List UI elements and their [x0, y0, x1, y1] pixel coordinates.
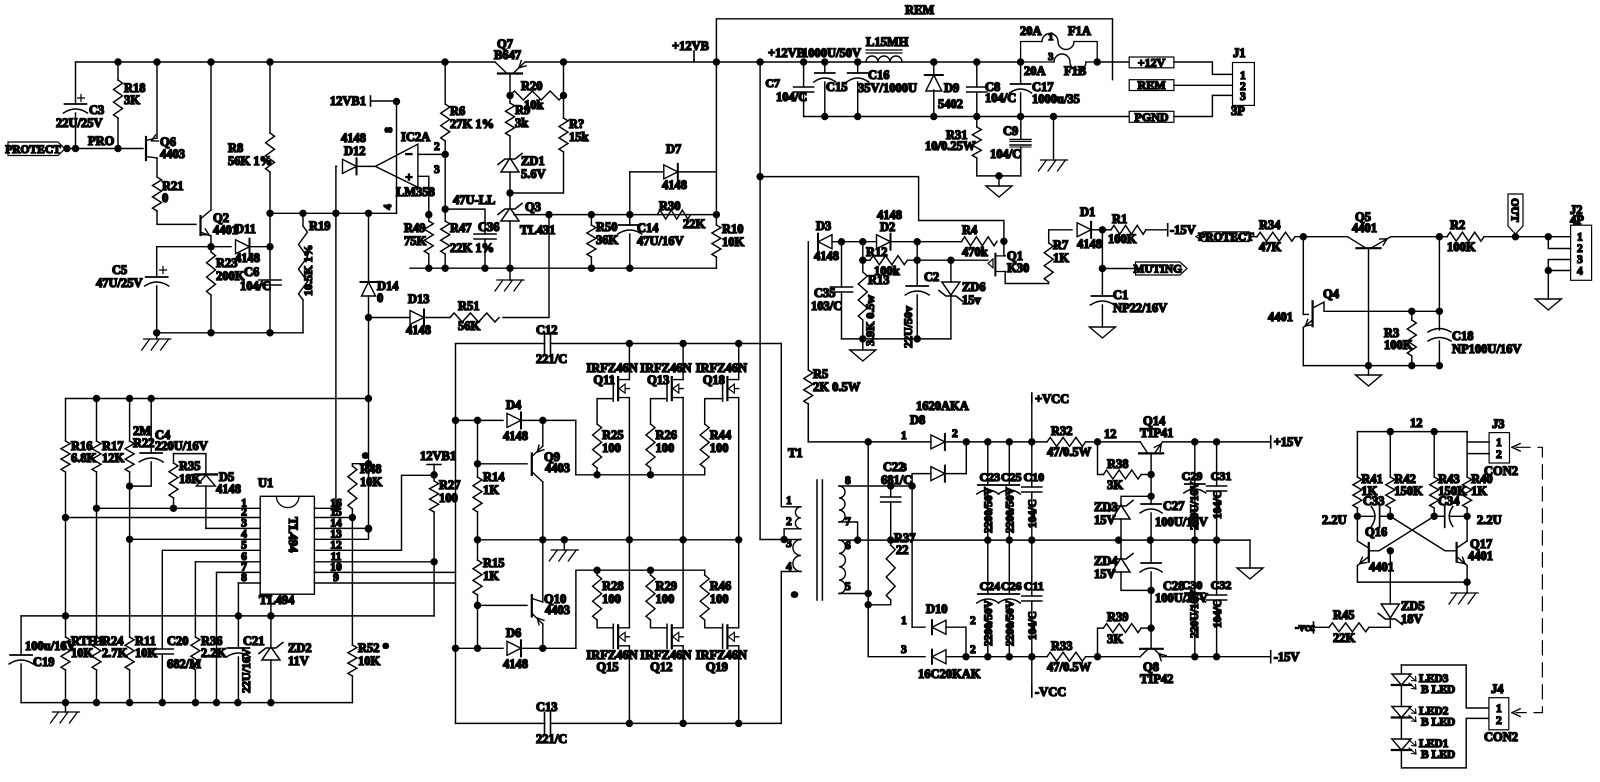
- svg-text:6: 6: [845, 540, 851, 552]
- wire out gnd stem: [1368, 366, 1370, 375]
- wire 12VB1b stem: [433, 465, 435, 475]
- transistor Q4 (4401): [1311, 301, 1313, 326]
- wire C23 bottom: [987, 494, 989, 540]
- wire D4 row: [456, 419, 504, 421]
- transistor Q9 (4403): [531, 454, 533, 475]
- wire C11 top: [1031, 540, 1033, 596]
- tick 12VB1: [370, 96, 372, 106]
- wire R28 top: [596, 570, 598, 575]
- wire C36 branch: [445, 209, 485, 234]
- wire R48 bottom: [351, 509, 353, 518]
- svg-text:104/C: 104/C: [1212, 599, 1224, 628]
- junction: [267, 244, 273, 250]
- junction: [1006, 439, 1012, 445]
- wire pin8 row: [238, 582, 260, 584]
- wire Q18 drain: [738, 344, 740, 380]
- wire D6 row: [456, 647, 504, 649]
- wire C34 left: [1434, 515, 1445, 517]
- diode D9: [926, 75, 942, 91]
- svg-text:C29: C29: [1182, 469, 1203, 483]
- svg-text:D1: D1: [1080, 205, 1095, 219]
- junction: [1094, 59, 1100, 65]
- capacitor C15: [815, 72, 835, 74]
- svg-text:C3: C3: [89, 103, 104, 117]
- junction: [855, 59, 861, 65]
- wire C5 top: [156, 247, 158, 277]
- resistor R19: [299, 226, 308, 300]
- transistor Q8 (TIP42): [1140, 648, 1163, 650]
- svg-text:221/C: 221/C: [536, 732, 567, 746]
- resistor R10: [712, 225, 721, 257]
- wire C16 bottom: [857, 82, 859, 117]
- svg-text:4403: 4403: [545, 603, 570, 617]
- wire R27 bottom: [433, 512, 435, 562]
- wire R34 out: [1295, 236, 1347, 238]
- wire R3 top: [1411, 311, 1413, 320]
- wire gate bus bottom: [597, 569, 705, 571]
- junction: [1436, 363, 1442, 369]
- resistor R3: [1407, 320, 1416, 356]
- svg-text:C33: C33: [1363, 494, 1385, 508]
- capacitor C4: [140, 452, 162, 454]
- resistor R28: [593, 575, 602, 620]
- wire C35 top: [841, 242, 843, 287]
- svg-text:2200/50V: 2200/50V: [1004, 486, 1016, 533]
- svg-text:100K: 100K: [1108, 232, 1137, 246]
- wire C22 top: [890, 486, 892, 497]
- junction: [1192, 654, 1198, 660]
- wire pin16 column: [335, 213, 337, 508]
- wire Q19 bottom: [738, 646, 740, 724]
- junction: [888, 483, 894, 489]
- wire C7 bottom: [803, 92, 805, 117]
- wire C27 top: [1150, 496, 1152, 504]
- wire led link LED3: [1400, 685, 1402, 707]
- svg-text:R47: R47: [450, 221, 472, 235]
- junction: [909, 483, 915, 489]
- wire ZD5 col: [1389, 551, 1391, 604]
- junction: [63, 700, 69, 706]
- svg-text:5: 5: [845, 581, 851, 593]
- junction: [1436, 234, 1442, 240]
- wire R12 left col: [862, 242, 864, 261]
- resistor R41: [1353, 477, 1362, 508]
- wire Q15 bottom: [628, 646, 630, 724]
- wire Q4 base: [1303, 313, 1308, 315]
- svg-text:100u/16V: 100u/16V: [25, 639, 76, 653]
- svg-text:B LED: B LED: [1421, 717, 1455, 729]
- svg-text:1: 1: [786, 495, 792, 507]
- wire C8 bottom: [976, 92, 978, 117]
- svg-text:22: 22: [896, 543, 909, 557]
- svg-text:F1B: F1B: [1064, 64, 1086, 78]
- svg-text:R?: R?: [569, 117, 584, 131]
- junction: [127, 536, 133, 542]
- wire TL431 bottom: [509, 221, 511, 268]
- wire Q14 base down: [1150, 453, 1152, 474]
- port +12V: [1129, 57, 1174, 68]
- svg-text:1: 1: [901, 615, 907, 627]
- wire botgnd stem: [65, 703, 67, 712]
- wire RTH1 bottom: [65, 670, 67, 703]
- tick +12VB: [693, 51, 695, 61]
- svg-text:+VCC: +VCC: [1035, 392, 1069, 406]
- svg-text:10/0.25W: 10/0.25W: [925, 139, 976, 153]
- svg-text:47/0.5W: 47/0.5W: [1047, 660, 1092, 674]
- junction: [366, 396, 372, 402]
- resistor R32: [1047, 437, 1086, 446]
- wire D1 to R1: [1102, 229, 1111, 231]
- capacitor C35: [831, 287, 853, 292]
- wire C25 bottom: [1008, 494, 1010, 540]
- svg-text:C36: C36: [478, 220, 500, 234]
- wire +VCC stem: [1031, 398, 1033, 442]
- svg-text:C18: C18: [1452, 329, 1474, 343]
- wire C20 bottom: [161, 654, 163, 703]
- wire C28 top: [1150, 540, 1152, 563]
- wire R6 bottom: [444, 141, 446, 154]
- wire ZD1 top: [509, 136, 511, 158]
- wire R23 top: [210, 247, 212, 252]
- junction: [507, 93, 513, 99]
- svg-text:4148: 4148: [662, 178, 687, 192]
- wire ZD4 bottom: [1121, 572, 1151, 590]
- svg-text:R28: R28: [602, 579, 624, 593]
- wire T1 pin3 stub: [760, 539, 801, 541]
- svg-text:IC2A: IC2A: [401, 130, 430, 144]
- resistor R22: [125, 441, 134, 472]
- svg-text:R48: R48: [360, 462, 382, 476]
- wire C6 top: [269, 247, 271, 280]
- diode D12: [343, 159, 357, 173]
- wire D12 col: [335, 166, 337, 213]
- svg-text:8: 8: [383, 127, 395, 133]
- svg-text:4403: 4403: [545, 461, 570, 475]
- svg-text:3: 3: [434, 164, 440, 176]
- wire Q15 top: [628, 540, 630, 628]
- svg-text:22U/16V: 22U/16V: [239, 648, 253, 693]
- wire Q17 emitter: [1466, 566, 1468, 583]
- junction: [475, 417, 481, 423]
- junction: [540, 417, 546, 423]
- junction: [540, 537, 546, 543]
- wire -raw rail: [966, 656, 1047, 658]
- svg-text:+12VB: +12VB: [768, 46, 805, 60]
- wire D4 out: [522, 419, 576, 421]
- transistor Q16 (4401): [1368, 543, 1370, 562]
- wire R29 top: [650, 570, 652, 575]
- junction: [366, 210, 372, 216]
- wire D14 col lower2: [368, 399, 370, 464]
- svg-text:R20: R20: [521, 79, 543, 93]
- capacitor C7: [794, 87, 814, 92]
- svg-text:75K: 75K: [404, 234, 427, 248]
- junction: [1214, 537, 1220, 543]
- transformer T1 primary: [795, 507, 800, 529]
- svg-text:4148: 4148: [503, 657, 528, 671]
- junction: [94, 505, 100, 511]
- wire C10 bottom: [1031, 492, 1033, 540]
- capacitor C33: [1371, 507, 1375, 527]
- junction: [680, 537, 686, 543]
- svg-text:R46: R46: [710, 579, 732, 593]
- wire pin13 row: [314, 528, 368, 539]
- svg-text:2: 2: [786, 516, 792, 528]
- wire R23 bottom: [210, 295, 212, 333]
- svg-text:R30: R30: [659, 199, 681, 213]
- wire R31 top: [976, 117, 978, 128]
- wire RTH1 top: [65, 616, 67, 637]
- resistor R35: [169, 463, 178, 498]
- capacitor C31: [1207, 486, 1227, 491]
- resistor R18: [114, 80, 123, 118]
- svg-text:4: 4: [382, 204, 394, 210]
- wire D11 to R8 col: [250, 246, 270, 248]
- svg-text:4148: 4148: [503, 429, 528, 443]
- wire -vcc lead: [1314, 626, 1330, 628]
- junction: [1018, 114, 1024, 120]
- junction: [426, 212, 432, 218]
- svg-text:+12V: +12V: [1138, 55, 1166, 69]
- svg-text:R50: R50: [596, 220, 618, 234]
- wire R7 top: [1049, 230, 1072, 243]
- wire R41 bottom: [1356, 508, 1358, 516]
- wire R47 bottom: [444, 254, 446, 268]
- capacitor C2: [906, 285, 928, 287]
- wire R40 top: [1466, 432, 1468, 477]
- junction: [366, 526, 372, 532]
- svg-text:10K: 10K: [360, 475, 383, 489]
- svg-text:R25: R25: [602, 428, 624, 442]
- diode D3: [818, 235, 832, 249]
- junction: [713, 212, 719, 218]
- junction: [482, 265, 488, 271]
- wire Q7 base down: [509, 74, 511, 96]
- svg-text:4401: 4401: [1352, 221, 1377, 235]
- svg-text:1: 1: [1577, 232, 1583, 244]
- wire REM to J1: [1174, 84, 1233, 86]
- svg-text:4148: 4148: [406, 323, 431, 337]
- wire T1 pin7 stub: [839, 522, 858, 540]
- wire C19 bottom: [20, 664, 22, 703]
- svg-text:100: 100: [602, 592, 621, 606]
- junction: [1214, 654, 1220, 660]
- wire R31 bottom: [977, 158, 1021, 176]
- wire pin15 row: [314, 517, 352, 519]
- wire drive column: [455, 344, 457, 723]
- wire D8 pin3 up: [912, 474, 931, 486]
- svg-text:D4: D4: [506, 398, 522, 412]
- svg-text:47/0.5W: 47/0.5W: [1047, 445, 1092, 459]
- svg-text:1620AKA: 1620AKA: [916, 399, 969, 413]
- wire latch bottom rail: [157, 332, 303, 334]
- wire Q19 top: [738, 540, 740, 628]
- wire Q9 emitter up: [542, 420, 544, 446]
- resistor R20: [510, 91, 564, 100]
- svg-text:3K: 3K: [1107, 478, 1123, 492]
- transistor Q1 (K30): [988, 259, 993, 268]
- capacitor C24: [978, 593, 998, 595]
- svg-text:R49: R49: [404, 221, 426, 235]
- wire R52 col: [351, 518, 353, 646]
- junction: [546, 212, 552, 218]
- junction: [366, 461, 372, 467]
- svg-text:R35: R35: [179, 459, 201, 473]
- wire to +12V box: [1097, 61, 1129, 63]
- junction: [1095, 654, 1101, 660]
- svg-text:104/C: 104/C: [1212, 490, 1224, 519]
- wire ZD1 bottom: [509, 172, 511, 193]
- svg-text:3: 3: [1048, 51, 1054, 63]
- transistor Q10 (4403): [531, 595, 533, 616]
- wire R1 to -15V: [1146, 229, 1168, 231]
- wire C26 bottom: [1008, 603, 1010, 657]
- MOSFET Q13 (IRFZ46N): [671, 377, 673, 400]
- junction: [1147, 537, 1153, 543]
- wire D8b out: [945, 442, 966, 474]
- svg-text:R5: R5: [813, 367, 828, 381]
- fuse F1A: [1021, 42, 1042, 63]
- inductor L15MH: [866, 56, 902, 62]
- svg-text:10K: 10K: [135, 646, 158, 660]
- svg-text:2.2K: 2.2K: [201, 646, 227, 660]
- svg-text:0: 0: [377, 291, 383, 305]
- svg-text:D2: D2: [880, 220, 895, 234]
- wire C29 bottom: [1194, 493, 1196, 540]
- wire C24 top: [987, 540, 989, 594]
- svg-text:3k: 3k: [515, 116, 528, 130]
- junction: [1436, 308, 1442, 314]
- svg-text:104/C: 104/C: [776, 90, 807, 104]
- MOSFET Q19 (IRFZ46N): [726, 625, 728, 648]
- wire FB row: [514, 214, 716, 216]
- svg-text:C25: C25: [1001, 470, 1022, 484]
- wire Q11 drain: [628, 344, 630, 380]
- junction: [159, 700, 165, 706]
- capacitor C11: [1022, 596, 1042, 601]
- wire pin10 row: [314, 571, 455, 573]
- junction: [1387, 513, 1393, 519]
- junction: [588, 212, 594, 218]
- wire R37 bottom: [868, 600, 891, 605]
- svg-text:D8: D8: [910, 413, 925, 427]
- ground (C1): [1089, 327, 1115, 338]
- wire R36 col: [194, 562, 196, 637]
- junction: [736, 537, 742, 543]
- wire led link LED2: [1400, 718, 1402, 740]
- wire Q12 bottom: [682, 646, 684, 724]
- wire Q10 emitter down: [542, 624, 544, 648]
- resistor R8: [266, 133, 275, 172]
- junction: [680, 720, 686, 726]
- resistor R47: [441, 221, 450, 254]
- wire D12 anode: [335, 165, 338, 167]
- svg-text:−: −: [405, 147, 412, 162]
- wire rail Q7 right: [525, 61, 716, 63]
- wire +12VB drop column: [715, 62, 717, 215]
- transistor Q17 (4401): [1455, 543, 1457, 562]
- resistor R15: [473, 560, 482, 595]
- wire R33 out: [1086, 656, 1141, 658]
- transistor Q14 (TIP41): [1139, 452, 1163, 454]
- wire R17 top: [96, 399, 98, 442]
- svg-text:1K: 1K: [1471, 484, 1487, 498]
- svg-text:R8: R8: [228, 141, 243, 155]
- wire R18 bottom: [117, 118, 119, 149]
- junction: [115, 59, 121, 65]
- tick +VCC: [1031, 397, 1033, 399]
- wire C31 top: [1216, 442, 1218, 486]
- svg-text:47U-LL: 47U-LL: [453, 193, 495, 207]
- junction: [680, 341, 686, 347]
- wire C14 bottom: [629, 234, 631, 268]
- wire D12 to opamp: [357, 165, 376, 167]
- resistor R14: [473, 477, 482, 512]
- svg-text:27K 1%: 27K 1%: [450, 117, 494, 131]
- wire C30 bottom: [1194, 602, 1196, 657]
- ground (R31/C9): [986, 186, 1012, 197]
- wire R13 bottom: [862, 320, 864, 339]
- wire R35-D5 link: [174, 454, 206, 475]
- svg-text:20A: 20A: [1020, 24, 1042, 38]
- wire R50 top: [590, 215, 592, 225]
- wire lower rail right: [551, 722, 782, 724]
- wire Rq col top: [563, 62, 565, 96]
- wire pin16 row: [314, 507, 336, 509]
- wire R43 top: [1433, 432, 1435, 477]
- wire pin3 row: [206, 527, 260, 529]
- junction: [1300, 234, 1306, 240]
- svg-text:3: 3: [786, 538, 792, 550]
- junction: [860, 336, 866, 342]
- wire J2 pin2: [1548, 237, 1570, 249]
- junction: [1545, 234, 1551, 240]
- svg-text:12: 12: [1410, 416, 1423, 430]
- capacitor C34: [1444, 506, 1446, 528]
- wire mv gnd stem: [1466, 582, 1468, 593]
- svg-text:R52 *: R52 *: [358, 641, 389, 655]
- capacitor C32: [1207, 595, 1227, 600]
- svg-text:PROTECT: PROTECT: [5, 144, 61, 156]
- junction: [300, 210, 306, 216]
- junction: [1409, 308, 1415, 314]
- junction: [1116, 537, 1122, 543]
- wire C36 bottom: [484, 239, 486, 268]
- svg-text:TL431: TL431: [520, 223, 555, 237]
- svg-text:D6: D6: [506, 626, 521, 640]
- junction: [442, 206, 448, 212]
- junction: [713, 59, 719, 65]
- transformer T1 core: [817, 480, 822, 600]
- svg-text:5: 5: [241, 539, 247, 551]
- capacitor C22: [881, 497, 901, 502]
- junction: [985, 439, 991, 445]
- wire C10 top: [1031, 442, 1033, 487]
- svg-text:R7: R7: [1053, 238, 1068, 252]
- svg-text:K30: K30: [1007, 261, 1029, 275]
- capacitor C20: [151, 649, 173, 654]
- wire gate row: [907, 259, 988, 261]
- wire R39 left: [1098, 628, 1104, 657]
- wire D13 cathode: [424, 317, 450, 319]
- wire J2 pin4: [1548, 270, 1570, 272]
- wire C11 bottom: [1031, 601, 1033, 657]
- wire pin9 row: [314, 582, 455, 584]
- svg-text:3P: 3P: [1231, 104, 1245, 118]
- resistor R29: [646, 575, 655, 620]
- wire R16 col lower: [65, 518, 67, 616]
- svg-text:R14: R14: [483, 470, 505, 484]
